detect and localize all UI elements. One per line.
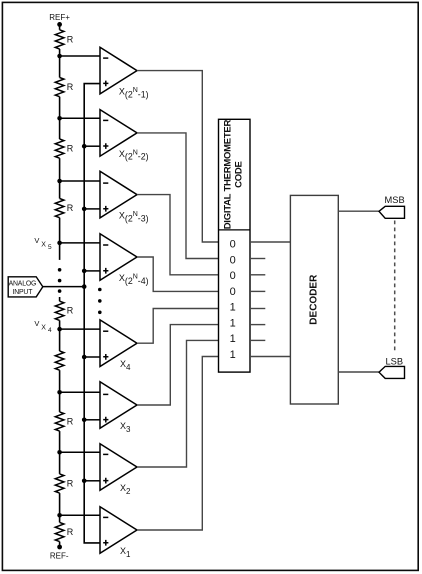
svg-text:1: 1	[230, 333, 236, 345]
wire ladder segment R3 to R4	[59, 158, 61, 198]
op-amp comparator X2	[100, 444, 137, 496]
wire ladder segment break to R5	[59, 297, 61, 301]
wire stub row4	[250, 290, 265, 292]
wire stub row3	[250, 274, 265, 276]
wire analog input bus	[84, 84, 100, 543]
wire comp2 output to thermometer row 2	[137, 133, 219, 259]
wire thermometer row8 to decoder	[250, 356, 290, 358]
node ladder tap VX4	[57, 327, 62, 332]
svg-text:0: 0	[230, 254, 236, 266]
op-amp comparator X(2^N-3)	[100, 171, 149, 223]
svg-text:1: 1	[230, 318, 236, 330]
wire X4 output to thermometer row 5	[137, 309, 219, 344]
wire stub row5	[250, 308, 265, 310]
node bus junction X4+	[82, 355, 87, 360]
wire comp2 plus input	[84, 145, 100, 147]
resistor R6	[55, 351, 64, 370]
svg-text:R: R	[67, 306, 74, 316]
wire X2 plus input	[84, 480, 100, 482]
resistor R3	[55, 139, 74, 158]
label VX4	[34, 319, 52, 334]
ANALOG INPUT flag	[8, 277, 43, 297]
svg-text:5: 5	[48, 244, 52, 251]
node bus junction comp4+	[82, 269, 87, 274]
node ladder tap X3-	[57, 390, 62, 395]
wire comp2 minus input	[60, 117, 100, 119]
wire ladder segment R2 to R3	[59, 97, 61, 139]
svg-text:R: R	[67, 144, 74, 154]
op-amp comparator X(2^N-1)	[100, 47, 149, 99]
node bus junction analog input	[82, 284, 87, 289]
op-amp comparator X(2^N-4)	[100, 234, 149, 286]
wire ladder segment R5 to R6	[59, 320, 61, 351]
wire X2 output to thermometer row 7	[137, 340, 219, 467]
wire ladder segment R9 to REF-	[59, 542, 61, 547]
wire X1 output to thermometer row 8	[137, 357, 219, 531]
node ladder tap VX5	[57, 241, 62, 246]
node bus junction X2+	[82, 479, 87, 484]
wire comp3 output to thermometer row 3	[137, 195, 219, 275]
wire X2 minus input	[60, 451, 100, 453]
comparator ellipsis dots	[98, 288, 102, 314]
svg-text:V: V	[34, 319, 39, 328]
wire comp3 plus input	[84, 208, 100, 210]
node ladder tap X2-	[57, 450, 62, 455]
node bus junction X3+	[82, 418, 87, 423]
wire analog input to bus	[43, 286, 84, 288]
node bus junction comp2+	[82, 144, 87, 149]
op-amp comparator X4	[100, 320, 137, 372]
svg-text:LSB: LSB	[386, 357, 404, 367]
svg-text:REF-: REF-	[50, 552, 69, 561]
svg-text:MSB: MSB	[385, 195, 405, 205]
svg-text:REF+: REF+	[49, 13, 70, 22]
wire comp4 minus input	[60, 242, 100, 244]
decoder block U2	[290, 195, 338, 404]
resistor R5	[55, 301, 74, 320]
wire ladder segment R6 to R7	[59, 370, 61, 412]
svg-text:4: 4	[48, 327, 52, 334]
svg-text:0: 0	[230, 270, 236, 282]
wire X3 minus input	[60, 391, 100, 393]
wire X3 output to thermometer row 6	[137, 325, 219, 405]
wire ladder segment R8 to R9	[59, 493, 61, 522]
wire X4 minus input	[60, 328, 100, 330]
node REF+ terminal	[49, 13, 70, 27]
node ladder tap 2	[57, 116, 62, 121]
wire stub row2	[250, 258, 265, 260]
wire stub row6	[250, 324, 265, 326]
wire X4 plus input	[84, 356, 100, 358]
resistor R7	[55, 412, 74, 431]
op-amp comparator X1	[100, 507, 137, 559]
wire X3 plus input	[84, 419, 100, 421]
svg-text:DECODER: DECODER	[309, 274, 320, 325]
LSB output flag	[379, 357, 405, 379]
svg-text:INPUT: INPUT	[13, 289, 34, 296]
resistor R4	[55, 199, 74, 218]
border frame	[2, 2, 418, 370]
wire comp4 output to thermometer row 4	[137, 257, 219, 291]
wire stub row7	[250, 339, 265, 341]
node REF- terminal	[50, 545, 69, 561]
wire comp1 output to thermometer row 1	[137, 71, 219, 242]
svg-text:R: R	[67, 416, 74, 426]
svg-text:R: R	[67, 34, 74, 44]
resistor R9	[55, 522, 74, 541]
svg-text:0: 0	[230, 239, 236, 251]
dashed line MSB to LSB	[394, 221, 396, 353]
wire ladder segment R4 down to break	[59, 218, 61, 260]
resistor R2	[55, 78, 74, 97]
node bus junction comp3+	[82, 207, 87, 212]
svg-text:1: 1	[230, 349, 236, 361]
wire ladder segment REF+ to R1	[59, 24, 61, 29]
MSB output flag	[379, 195, 405, 219]
digital thermometer code block U1	[219, 119, 251, 372]
node ladder tap X1-	[57, 513, 62, 518]
svg-text:R: R	[67, 82, 74, 92]
svg-text:ANALOG: ANALOG	[9, 280, 37, 287]
wire LSB output	[338, 371, 379, 373]
svg-text:X: X	[41, 325, 46, 332]
wire MSB output	[338, 210, 379, 212]
node ladder tap 3	[57, 179, 62, 184]
op-amp comparator X3	[100, 382, 137, 434]
svg-text:X: X	[41, 241, 46, 248]
op-amp comparator X(2^N-2)	[100, 110, 149, 162]
wire ladder segment R7 to R8	[59, 431, 61, 474]
wire comp1 minus input	[60, 55, 100, 57]
wire ladder segment R1 to R2	[59, 49, 61, 78]
svg-text:0: 0	[230, 286, 236, 298]
resistor R1	[55, 30, 74, 49]
node ladder tap 1	[57, 54, 62, 59]
label VX5	[34, 236, 52, 251]
wire comp3 minus input	[60, 180, 100, 182]
svg-text:R: R	[67, 478, 74, 488]
svg-text:R: R	[67, 203, 74, 213]
ladder ellipsis dots	[58, 268, 62, 293]
resistor R8	[55, 474, 74, 493]
wire comp4 plus input	[84, 270, 100, 272]
wire X1 minus input	[60, 514, 100, 516]
svg-text:1: 1	[230, 302, 236, 314]
svg-text:R: R	[67, 527, 74, 537]
wire thermometer row1 to decoder	[250, 241, 290, 243]
svg-text:V: V	[34, 236, 39, 245]
